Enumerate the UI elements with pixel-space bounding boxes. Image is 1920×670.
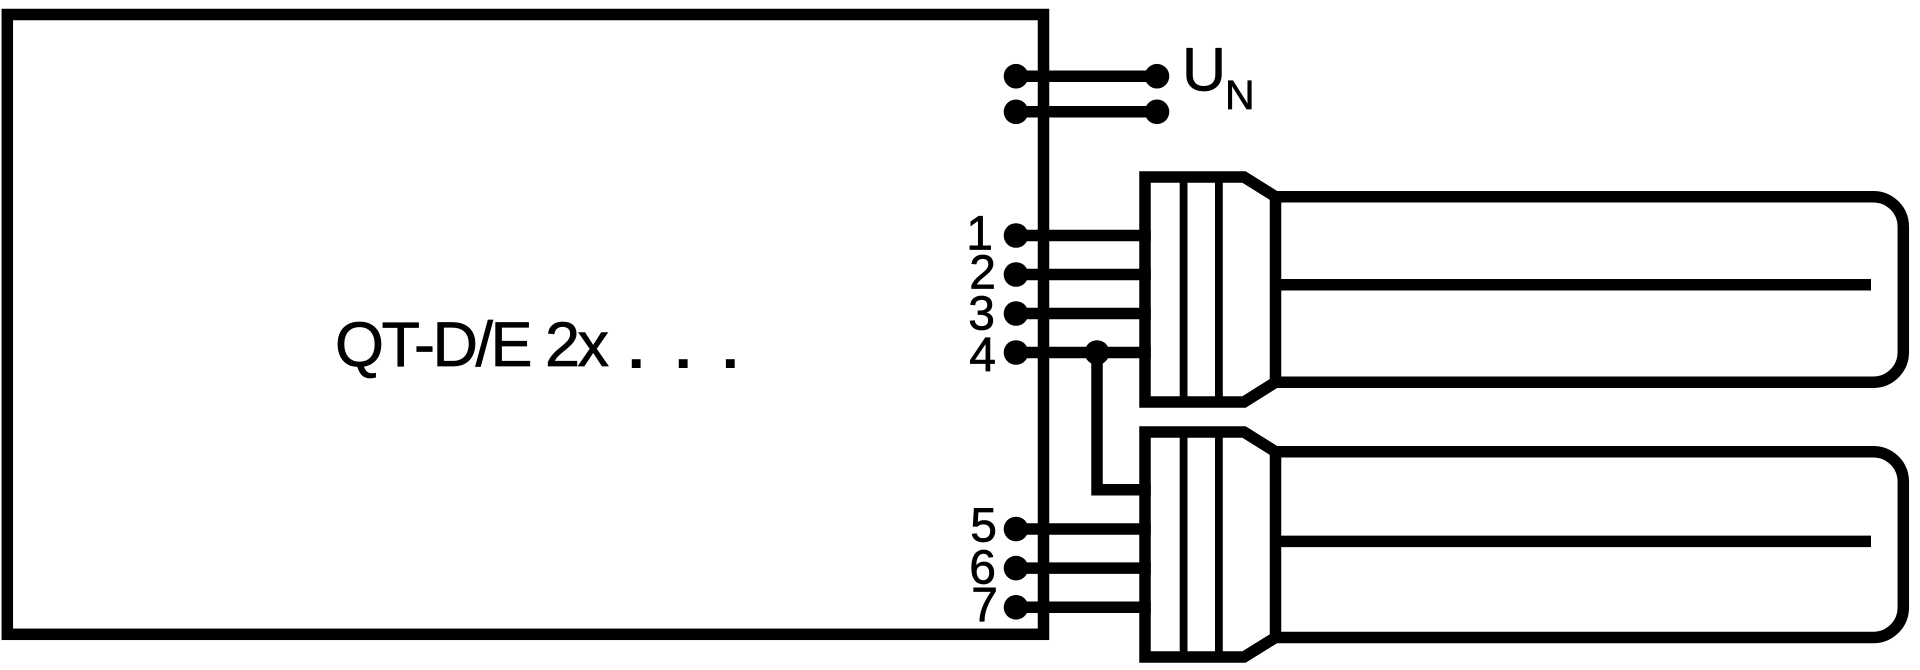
lamp 1 tube divider [1276, 279, 1872, 291]
terminal dot UN-L inner [1004, 64, 1029, 89]
dot 2 of ellipsis [679, 359, 688, 368]
dot 1 of ellipsis [632, 359, 641, 368]
lamp 2 base plug [1145, 432, 1276, 657]
wire pin 6 [1016, 562, 1151, 574]
lamp 2 base pin line b [1215, 432, 1223, 657]
wire pin 4 [1016, 347, 1151, 359]
wire UN line L [1016, 70, 1157, 82]
svg-text:7: 7 [971, 579, 998, 632]
wire pin 3 [1016, 308, 1151, 320]
dot 3 of ellipsis [726, 359, 735, 368]
svg-text:U: U [1182, 36, 1226, 104]
svg-text:N: N [1225, 72, 1255, 118]
svg-text:4: 4 [969, 329, 996, 382]
terminal dot 1 [1004, 223, 1029, 248]
terminal dot 7 [1004, 595, 1029, 620]
lamp 1 base pin line b [1215, 177, 1223, 402]
wire pin 5 [1016, 523, 1151, 535]
wire pin 2 [1016, 269, 1151, 281]
terminal dot 4 [1004, 340, 1029, 365]
svg-text:QT-D/E 2x: QT-D/E 2x [335, 310, 609, 380]
terminal dot UN-N outer [1145, 100, 1170, 125]
terminal dot 5 [1004, 517, 1029, 542]
lamp 1 base plug [1145, 177, 1276, 402]
terminal dot 3 [1004, 301, 1029, 326]
wire pin 7 [1016, 602, 1151, 614]
wire link pin4 to lamp2 [1097, 353, 1151, 490]
lamp 2 tube outline [1276, 452, 1904, 638]
ballast box QT-D/E [7, 15, 1043, 635]
lamp 1 tube outline [1276, 197, 1904, 383]
lamp 1 base pin line a [1180, 177, 1188, 402]
lamp 2 base pin line a [1180, 432, 1188, 657]
wire UN line N [1016, 106, 1157, 118]
terminal dot UN-N inner [1004, 100, 1029, 125]
terminal dot 2 [1004, 262, 1029, 287]
terminal dot 6 [1004, 556, 1029, 581]
junction dot on wire 4 [1085, 340, 1110, 365]
wire pin 1 [1016, 230, 1151, 242]
lamp 2 tube divider [1276, 536, 1872, 548]
terminal dot UN-L outer [1145, 64, 1170, 89]
